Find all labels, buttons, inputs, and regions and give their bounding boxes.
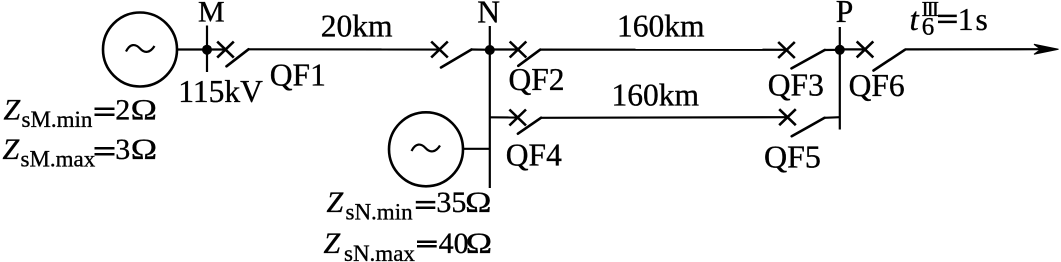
label 20km [321, 9, 393, 44]
generator G1 [103, 13, 177, 87]
wire G2 to N bus [462, 148, 490, 150]
svg-text:sN.max: sN.max [344, 241, 415, 262]
bus P [839, 27, 841, 130]
wire QF5 to P bus [825, 116, 840, 119]
svg-text:Ω: Ω [131, 133, 157, 166]
svg-text:Z: Z [4, 94, 21, 127]
wire N to QF2 [490, 48, 518, 50]
svg-text:QF5: QF5 [764, 139, 821, 175]
svg-text:M: M [198, 0, 225, 29]
svg-text:1s: 1s [958, 2, 990, 37]
label QF6 [849, 68, 905, 103]
label 160km bottom [612, 78, 700, 113]
label QF5 [764, 139, 821, 175]
node M [202, 45, 212, 55]
wire 160km bottom line QF4 to QF5 [541, 116, 788, 119]
svg-text:35: 35 [436, 186, 466, 219]
label QF3 [768, 68, 824, 103]
svg-text:QF2: QF2 [509, 62, 565, 97]
label P [836, 0, 854, 29]
breaker QF2 [510, 42, 541, 66]
bus tick M [206, 26, 208, 73]
label t6^III = 1s [910, 0, 990, 40]
svg-text:QF1: QF1 [270, 58, 326, 93]
svg-text:6: 6 [922, 13, 935, 40]
label 160km top [617, 9, 705, 44]
svg-text:115kV: 115kV [178, 74, 263, 109]
wire to node N [472, 48, 494, 50]
label QF2 [509, 62, 565, 97]
label 115kV [178, 74, 263, 109]
label ZsN.min = 35 ohm [327, 186, 492, 225]
svg-text:160km: 160km [617, 9, 705, 44]
svg-text:Z: Z [3, 133, 20, 166]
label M [198, 0, 225, 29]
breaker QF3 [778, 42, 825, 68]
svg-text:sM.max: sM.max [21, 146, 96, 171]
svg-text:40: 40 [439, 227, 469, 260]
bus N [489, 26, 491, 188]
svg-text:2: 2 [115, 94, 130, 127]
wire 20km line QF1 to N-side breaker [249, 48, 440, 50]
wire N bus to QF4 [490, 116, 518, 118]
svg-text:P: P [836, 0, 854, 29]
svg-text:Ω: Ω [466, 227, 492, 260]
breaker QF6 [857, 41, 905, 70]
svg-text:QF4: QF4 [506, 138, 562, 173]
svg-text:160km: 160km [612, 78, 700, 113]
svg-text:Ω: Ω [131, 94, 157, 127]
generator G2 [389, 112, 463, 186]
svg-text:sM.min: sM.min [22, 107, 93, 132]
wire QF3 to node P [825, 49, 840, 51]
label ZsM.max = 3 ohm [3, 133, 157, 172]
breaker at N end of 20km line [431, 42, 471, 68]
svg-text:t: t [910, 2, 920, 38]
svg-text:QF3: QF3 [768, 68, 824, 103]
svg-text:Z: Z [324, 227, 341, 260]
svg-text:QF6: QF6 [849, 68, 905, 103]
node N [485, 45, 495, 55]
wire 160km top line QF2 to QF3 [540, 48, 786, 50]
breaker QF4 [509, 110, 541, 134]
label QF1 [270, 58, 326, 93]
label N [477, 0, 500, 30]
label ZsN.max = 40 ohm [324, 227, 492, 262]
wire G1 to node M [176, 48, 226, 50]
svg-text:3: 3 [115, 133, 130, 166]
wire QF6 to output with arrow [905, 44, 1059, 54]
svg-text:Z: Z [327, 186, 344, 219]
svg-text:Ω: Ω [465, 186, 491, 219]
wire P to QF6 [840, 48, 865, 50]
label ZsM.min = 2 ohm [4, 94, 157, 133]
label QF4 [506, 138, 562, 173]
node P [835, 45, 845, 55]
breaker QF1 [217, 42, 248, 67]
svg-text:N: N [477, 0, 500, 30]
breaker QF5 [779, 109, 824, 136]
svg-text:20km: 20km [321, 9, 393, 44]
svg-text:sN.min: sN.min [346, 200, 414, 225]
